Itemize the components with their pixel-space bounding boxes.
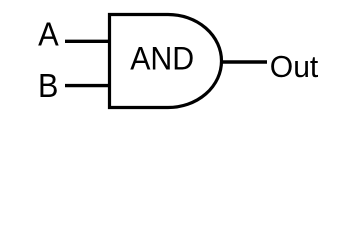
svg-text:B: B xyxy=(38,68,58,105)
svg-text:A: A xyxy=(38,17,59,54)
svg-text:AND: AND xyxy=(130,41,194,77)
svg-text:Out: Out xyxy=(270,50,319,84)
